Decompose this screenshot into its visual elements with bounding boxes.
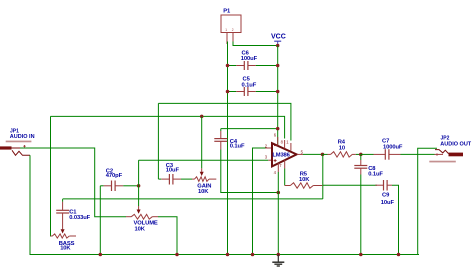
capacitor C2 [100, 169, 138, 191]
wire P1 right pin to VCC node [233, 42, 278, 46]
wire pin4 to ground rail [277, 172, 279, 255]
node C5 left junction [226, 90, 230, 94]
node C4 ground junction [277, 191, 281, 195]
wire bass left terminal riser [51, 116, 53, 236]
wire JP2 ground [418, 148, 437, 255]
capacitor C5 [228, 77, 277, 97]
svg-text:10K: 10K [60, 246, 71, 252]
node C5 right junction [276, 90, 280, 94]
node VCC junction [276, 44, 280, 48]
capacitor C3 [158, 163, 192, 184]
svg-text:1000uF: 1000uF [383, 145, 403, 151]
capacitor C4 [214, 129, 245, 150]
wire JP1 sleeve to ground rail [29, 155, 31, 255]
wire pin1 feedback horizontal [158, 103, 291, 140]
svg-text:C9: C9 [382, 193, 390, 199]
node C2 ground junction [99, 253, 103, 257]
capacitor C8 [354, 154, 383, 177]
node C6 left junction [226, 64, 230, 68]
connector JP1 AUDIO IN [0, 129, 35, 156]
node output junction [321, 153, 325, 157]
resistor R4 [323, 140, 361, 158]
wire C2 left to ground rail [99, 186, 101, 255]
wire pin3 horizontal [139, 159, 269, 161]
svg-text:2: 2 [232, 28, 234, 32]
wire pin7 to R5 [284, 169, 286, 186]
resistor R5 [285, 172, 323, 189]
svg-text:100uF: 100uF [241, 56, 258, 62]
wire volume right to ground [158, 217, 177, 255]
node R4 C7 C8 junction [359, 153, 363, 157]
wire volume wiper to pin3 line [138, 160, 140, 206]
svg-text:470pF: 470pF [106, 173, 123, 179]
svg-text:0.1uF: 0.1uF [230, 143, 245, 149]
wire VCC rail down to pin 6 [277, 46, 279, 146]
wire ground rail [30, 254, 420, 256]
node C2 right / volume wiper junction [137, 184, 141, 188]
wire C4 bottom to pin4 line [221, 150, 278, 193]
wire gain wiper riser [201, 116, 203, 168]
op-amp U1 LM386 [265, 133, 304, 176]
capacitor C9 [375, 180, 394, 206]
node C8 ground junction [359, 253, 363, 257]
svg-text:0.1uF: 0.1uF [368, 172, 383, 178]
svg-text:AUDIO OUT: AUDIO OUT [440, 141, 472, 147]
svg-text:1: 1 [225, 28, 227, 32]
node C9 ground junction [397, 253, 401, 257]
svg-text:AUDIO IN: AUDIO IN [10, 134, 35, 140]
wire output down to feedback line [322, 154, 324, 199]
potentiometer BASS [51, 234, 77, 252]
wire C9 right to ground rail [392, 185, 399, 254]
wire pin2 to ground [253, 148, 266, 255]
wire P1 left pin to ground rail [227, 42, 229, 255]
svg-text:P1: P1 [223, 8, 231, 14]
ground symbol [272, 253, 284, 266]
node C4 VCC junction [276, 127, 280, 131]
wire C4 top to VCC rail [221, 128, 278, 130]
svg-text:10: 10 [339, 145, 345, 151]
wire JP1 tip to volume pot (input net) [20, 148, 126, 217]
potentiometer GAIN [192, 168, 216, 195]
node pin2 ground junction [251, 253, 255, 257]
wire pin1 riser to C3 [157, 103, 159, 179]
svg-text:0.033uF: 0.033uF [69, 215, 90, 221]
capacitor C1 [56, 199, 90, 233]
wire pin5 output [303, 153, 323, 155]
capacitor C7 [361, 139, 443, 160]
potentiometer VOLUME [126, 206, 158, 232]
node volume ground junction [175, 253, 179, 257]
wire output branch to C9 [323, 184, 377, 186]
svg-text:10K: 10K [198, 189, 209, 195]
wire C1 top to feedback line [63, 198, 323, 200]
svg-text:10uF: 10uF [166, 168, 180, 174]
connector JP2 AUDIO OUT [429, 135, 472, 162]
svg-text:10K: 10K [299, 177, 310, 183]
node left rail ground junction [226, 253, 230, 257]
svg-text:10uF: 10uF [381, 200, 395, 206]
capacitor C6 [228, 51, 277, 71]
connector P1 [221, 8, 241, 44]
power VCC [271, 34, 286, 46]
svg-text:VCC: VCC [271, 34, 286, 41]
node C6 right junction [276, 64, 280, 68]
svg-text:10K: 10K [135, 226, 146, 232]
wire C8 to ground rail [360, 175, 362, 255]
wire pin8 feedback horizontal [51, 116, 285, 138]
node gain wiper junction [200, 115, 204, 119]
svg-text:LM386: LM386 [272, 153, 290, 159]
